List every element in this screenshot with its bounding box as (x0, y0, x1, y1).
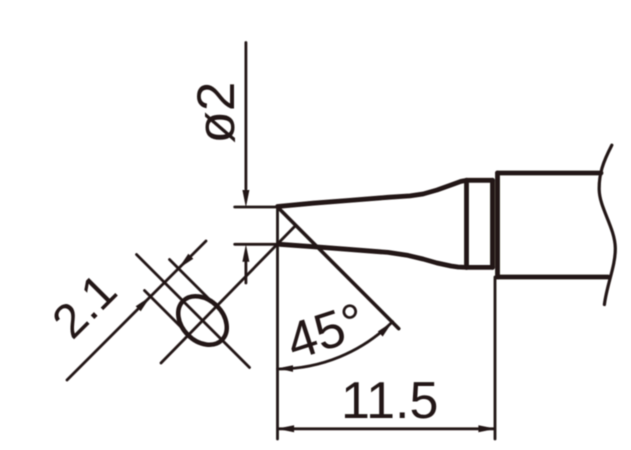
collar right edge (490, 180, 495, 267)
tip cone bottom edge (278, 244, 467, 267)
collar bottom edge (467, 265, 493, 270)
arrowhead 11.5 right (478, 425, 496, 432)
svg-text:ø2: ø2 (187, 82, 246, 144)
face cross line L2 (137, 255, 250, 368)
break line (wavy) (599, 145, 615, 304)
bevel face ellipse (169, 287, 237, 355)
arrowhead arc upper (378, 322, 393, 337)
svg-text:45°: 45° (280, 292, 373, 371)
tick T1 (170, 260, 218, 308)
extension line bottom of tip (235, 243, 282, 246)
arrowhead o2 down (242, 190, 249, 208)
arrowhead 2.1 lower (136, 296, 151, 311)
extension line right for 11.5 (494, 277, 497, 439)
dimension line 11.5 (278, 427, 494, 430)
angle arc 45 degrees (278, 322, 393, 369)
barrel top edge (498, 171, 602, 176)
svg-text:11.5: 11.5 (341, 372, 438, 430)
collar left edge (464, 180, 469, 267)
arrowhead arc left (278, 365, 294, 372)
bevel cut edge / 45-degree leg (278, 207, 399, 329)
extension line top of tip (235, 206, 279, 209)
dimension line 2.1 (67, 241, 206, 380)
arrowhead 11.5 left (277, 425, 295, 432)
face axis line L1 (161, 225, 296, 363)
arrowhead 2.1 upper (178, 254, 193, 269)
barrel left edge (495, 173, 500, 277)
barrel bottom edge (498, 275, 609, 280)
tip cone top edge (278, 180, 467, 206)
dimension line o2 lower shaft (244, 259, 247, 283)
arrowhead o2 up (242, 244, 249, 261)
tick T2 (145, 291, 191, 337)
svg-text:2.1: 2.1 (43, 264, 128, 349)
dimension line o2 upper shaft (244, 43, 247, 190)
vertical leg / extension for 11.5 (276, 207, 279, 439)
collar top edge (467, 178, 493, 183)
